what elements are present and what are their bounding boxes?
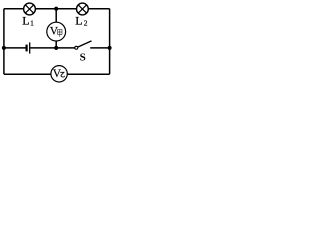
node: right junction [108,46,112,50]
wire left [3,9,5,75]
svg-text:L: L [75,14,82,28]
svg-text:V: V [53,68,62,80]
lamp L1 [24,3,36,15]
node: top junction between L1 and L2 [54,7,58,11]
svg-text:S: S [80,51,86,63]
node: left junction [2,46,6,50]
wire middle-left (to battery) [4,47,27,49]
voltmeter V-jia (upper) [47,22,66,41]
svg-text:2: 2 [84,19,88,28]
battery negative plate [26,45,28,52]
svg-text:L: L [22,14,29,28]
wire top [4,8,110,10]
wire middle-right (switch to right wire) [90,47,109,49]
wire middle-center (battery to switch) [30,47,75,49]
svg-text:1: 1 [30,19,34,28]
battery positive plate [29,42,31,53]
label L1 [22,14,34,28]
wire voltmeter riser [55,9,57,48]
voltmeter V-yi (lower) [51,66,67,82]
node: junction below voltmeter [54,46,58,50]
wire bottom [4,73,110,75]
switch S [75,41,92,49]
label L2 [75,14,88,28]
lamp L2 [77,3,89,15]
wire right [109,9,111,75]
